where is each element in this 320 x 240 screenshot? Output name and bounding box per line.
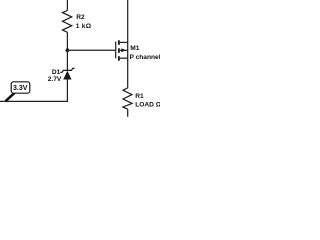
wire bottom rail xyxy=(0,100,68,102)
wire M1 source to R1 xyxy=(127,42,129,87)
node gate junction xyxy=(66,48,70,52)
svg-text:M1: M1 xyxy=(130,45,139,52)
wire zener anode to bottom rail xyxy=(66,80,68,102)
wire below R1 xyxy=(127,109,129,117)
svg-text:1 kΩ: 1 kΩ xyxy=(76,23,92,30)
svg-text:R2: R2 xyxy=(76,14,85,21)
svg-text:R1: R1 xyxy=(135,93,144,100)
svg-text:2.7V: 2.7V xyxy=(48,76,62,83)
net flag 3.3V xyxy=(5,82,29,102)
svg-text:P channel: P channel xyxy=(130,54,161,61)
svg-text:LOAD Ω: LOAD Ω xyxy=(135,101,160,108)
svg-text:3.3V: 3.3V xyxy=(13,85,28,92)
wire gate lead xyxy=(67,49,115,51)
resistor R1 xyxy=(123,88,162,109)
wire R2 bottom to zener top (through gate junction) xyxy=(66,32,68,70)
transistor M1 xyxy=(116,40,161,61)
svg-text:D1: D1 xyxy=(52,69,61,76)
resistor R2 xyxy=(63,10,92,32)
wire top lead of R2 xyxy=(66,0,68,10)
wire right rail from top edge to M1 drain xyxy=(127,0,129,42)
diode D1 (zener) xyxy=(48,68,75,83)
